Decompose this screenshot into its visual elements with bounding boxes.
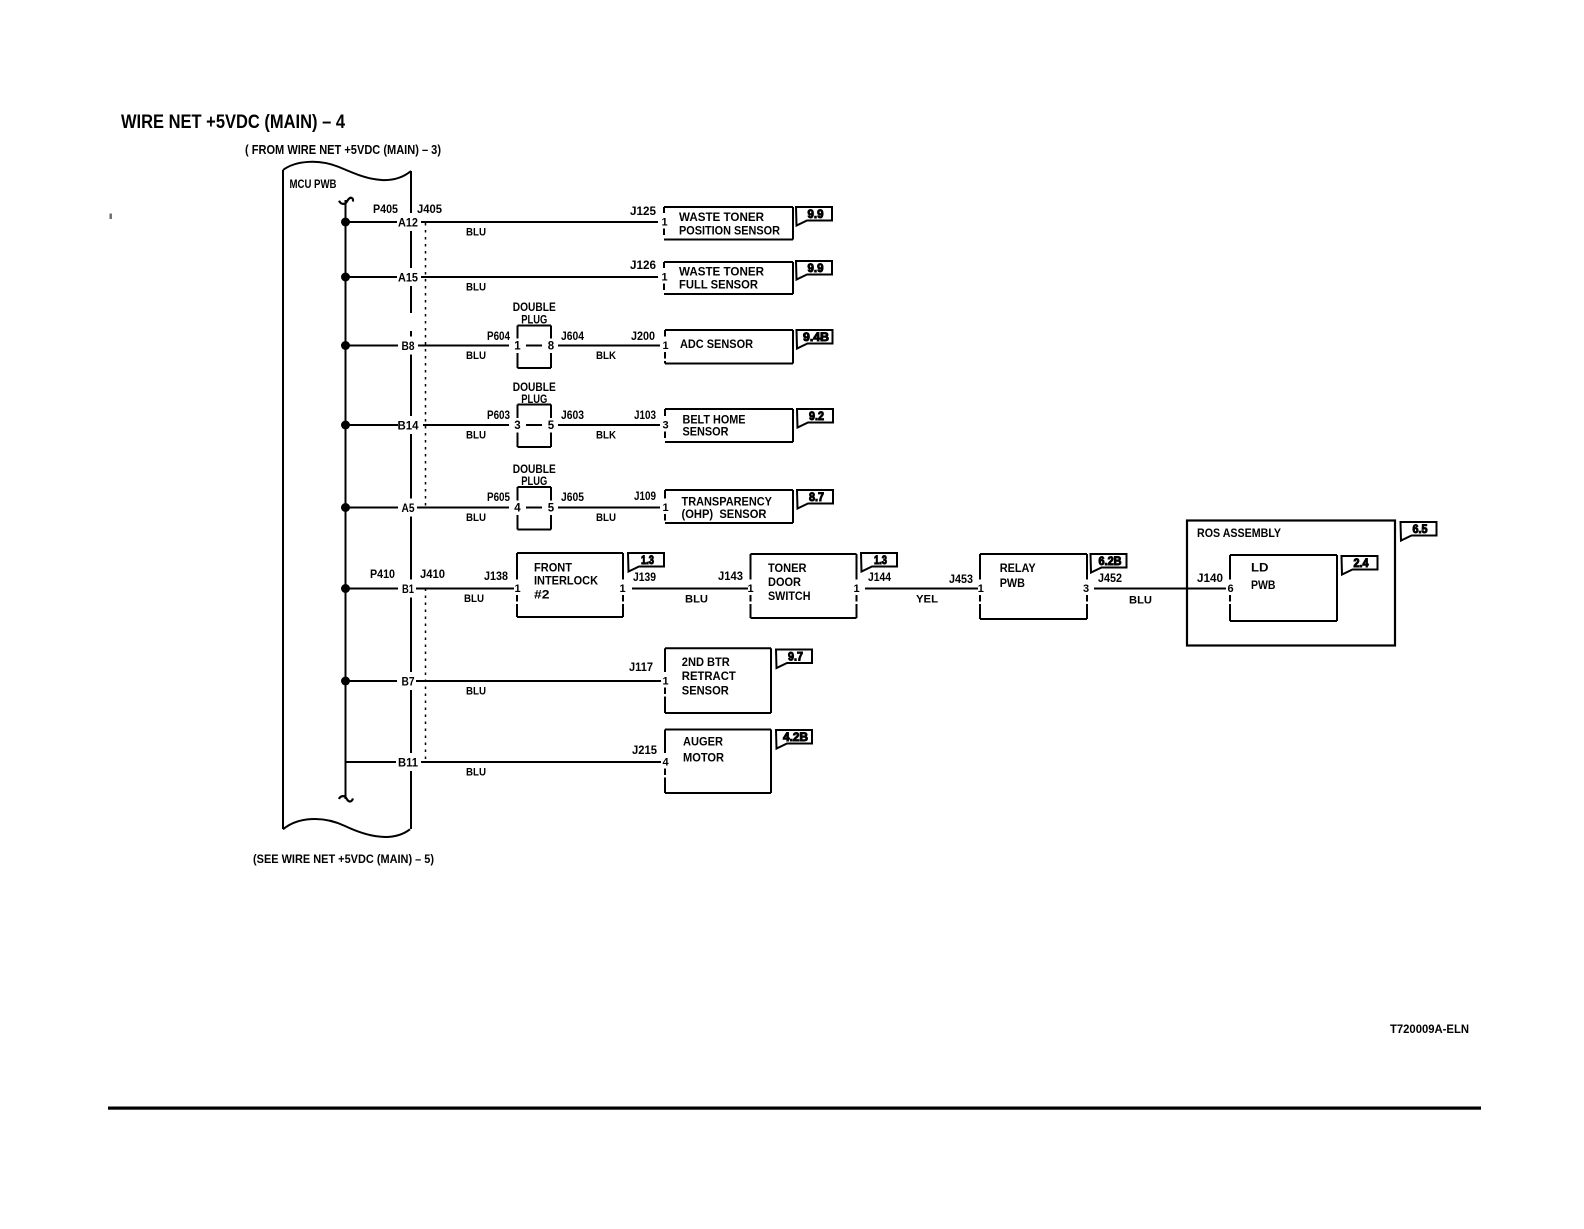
svg-text:PLUG: PLUG (521, 476, 547, 488)
svg-text:P604: P604 (487, 331, 511, 343)
svg-text:BLU: BLU (466, 767, 486, 779)
svg-text:1: 1 (661, 272, 667, 284)
svg-text:MCU PWB: MCU PWB (290, 177, 337, 191)
svg-text:B8: B8 (402, 339, 415, 353)
svg-text:BLU: BLU (466, 350, 486, 362)
svg-text:1: 1 (661, 217, 667, 229)
svg-text:LD: LD (1251, 563, 1269, 575)
svg-text:SENSOR: SENSOR (682, 685, 730, 697)
svg-text:1: 1 (619, 583, 625, 595)
svg-text:9.4B: 9.4B (803, 332, 829, 344)
svg-text:BLU: BLU (466, 686, 486, 698)
svg-text:B1: B1 (402, 582, 414, 596)
svg-text:J139: J139 (633, 572, 656, 584)
svg-text:J103: J103 (634, 410, 656, 422)
svg-text:BLU: BLU (466, 282, 486, 294)
svg-text:WASTE TONER: WASTE TONER (679, 267, 765, 279)
svg-text:P405: P405 (373, 204, 399, 216)
svg-text:1: 1 (747, 583, 753, 595)
svg-text:RETRACT: RETRACT (682, 671, 736, 683)
svg-text:9.7: 9.7 (788, 652, 803, 664)
svg-text:DOUBLE: DOUBLE (513, 464, 556, 476)
svg-text:4.2B: 4.2B (783, 732, 808, 744)
svg-text:P605: P605 (487, 492, 511, 504)
svg-text:SWITCH: SWITCH (768, 591, 811, 603)
svg-text:J405: J405 (417, 204, 443, 216)
svg-text:A5: A5 (402, 501, 415, 515)
svg-text:1: 1 (662, 340, 668, 352)
svg-text:2.4: 2.4 (1354, 558, 1370, 570)
svg-text:1: 1 (514, 583, 520, 595)
svg-text:1: 1 (662, 502, 668, 514)
svg-text:6: 6 (1227, 583, 1233, 595)
svg-text:B14: B14 (398, 419, 419, 433)
svg-text:BLU: BLU (464, 593, 484, 605)
svg-text:J144: J144 (868, 572, 892, 584)
svg-text:9.2: 9.2 (809, 411, 824, 423)
svg-text:1: 1 (978, 583, 984, 595)
svg-text:BELT HOME: BELT HOME (683, 415, 746, 427)
svg-text:9.9: 9.9 (808, 209, 824, 221)
svg-text:SENSOR: SENSOR (683, 427, 730, 439)
svg-text:PWB: PWB (1000, 578, 1025, 590)
svg-text:WIRE NET +5VDC (MAIN) – 4: WIRE NET +5VDC (MAIN) – 4 (121, 112, 345, 133)
svg-text:BLU: BLU (685, 594, 708, 606)
svg-text:J138: J138 (484, 571, 509, 583)
svg-text:J126: J126 (630, 260, 656, 272)
svg-text:DOUBLE: DOUBLE (513, 302, 556, 314)
svg-text:5: 5 (548, 420, 555, 432)
svg-text:B7: B7 (402, 675, 415, 689)
svg-text:J453: J453 (949, 574, 973, 586)
svg-text:A15: A15 (398, 271, 418, 285)
svg-text:4: 4 (662, 757, 669, 769)
svg-text:( FROM WIRE NET +5VDC (MAIN) –: ( FROM WIRE NET +5VDC (MAIN) – 3) (245, 143, 441, 157)
svg-text:6.5: 6.5 (1413, 524, 1429, 536)
svg-text:BLU: BLU (466, 430, 486, 442)
svg-text:1.3: 1.3 (874, 555, 887, 567)
svg-text:PWB: PWB (1251, 580, 1276, 592)
svg-text:J125: J125 (630, 206, 657, 218)
svg-text:J604: J604 (561, 331, 585, 343)
svg-text:6.2B: 6.2B (1099, 556, 1122, 568)
svg-text:9.9: 9.9 (808, 263, 824, 275)
svg-text:(OHP) SENSOR: (OHP) SENSOR (682, 509, 768, 521)
svg-text:PLUG: PLUG (521, 394, 547, 406)
svg-text:DOOR: DOOR (768, 577, 802, 589)
svg-text:FRONT: FRONT (534, 562, 572, 574)
svg-text:J605: J605 (561, 492, 585, 504)
svg-text:A12: A12 (398, 216, 418, 230)
svg-text:BLU: BLU (466, 227, 486, 239)
svg-text:(SEE WIRE NET +5VDC (MAIN) – 5: (SEE WIRE NET +5VDC (MAIN) – 5) (253, 852, 434, 866)
svg-text:1.3: 1.3 (641, 555, 654, 567)
svg-text:FULL SENSOR: FULL SENSOR (679, 280, 759, 292)
svg-text:J140: J140 (1197, 573, 1223, 585)
svg-text:J452: J452 (1098, 573, 1122, 585)
svg-text:ADC SENSOR: ADC SENSOR (680, 339, 754, 351)
svg-text:1: 1 (853, 583, 859, 595)
svg-text:#2: #2 (534, 590, 550, 602)
svg-text:MOTOR: MOTOR (683, 753, 725, 765)
svg-text:J117: J117 (629, 662, 653, 674)
svg-text:ROS ASSEMBLY: ROS ASSEMBLY (1197, 528, 1281, 540)
svg-text:3: 3 (514, 420, 520, 432)
svg-text:BLU: BLU (1129, 595, 1152, 607)
svg-text:PLUG: PLUG (521, 315, 547, 327)
svg-text:J603: J603 (561, 410, 584, 422)
svg-text:J109: J109 (634, 491, 656, 503)
svg-text:P603: P603 (487, 410, 510, 422)
svg-text:BLK: BLK (596, 350, 616, 362)
svg-text:4: 4 (514, 503, 521, 515)
svg-text:BLU: BLU (596, 512, 616, 524)
svg-text:1: 1 (514, 341, 521, 353)
svg-text:INTERLOCK: INTERLOCK (534, 576, 599, 588)
svg-text:5: 5 (548, 503, 555, 515)
svg-text:TRANSPARENCY: TRANSPARENCY (682, 497, 773, 509)
svg-text:1: 1 (662, 676, 668, 688)
svg-text:J410: J410 (420, 569, 445, 581)
svg-text:DOUBLE: DOUBLE (513, 382, 556, 394)
svg-text:8: 8 (548, 341, 555, 353)
svg-text:BLK: BLK (596, 430, 616, 442)
svg-text:POSITION SENSOR: POSITION SENSOR (679, 226, 781, 238)
svg-text:2ND BTR: 2ND BTR (682, 657, 731, 669)
svg-text:3: 3 (1083, 583, 1089, 595)
svg-text:J215: J215 (632, 745, 658, 757)
svg-text:AUGER: AUGER (683, 737, 724, 749)
svg-text:P410: P410 (370, 569, 395, 581)
svg-text:8.7: 8.7 (809, 492, 824, 504)
svg-text:B11: B11 (398, 756, 418, 770)
svg-text:TONER: TONER (768, 563, 807, 575)
svg-text:3: 3 (662, 420, 668, 432)
svg-text:BLU: BLU (466, 512, 486, 524)
svg-text:YEL: YEL (916, 594, 938, 606)
svg-text:T720009A-ELN: T720009A-ELN (1390, 1022, 1469, 1036)
svg-text:WASTE TONER: WASTE TONER (679, 212, 765, 224)
svg-text:RELAY: RELAY (1000, 563, 1036, 575)
svg-text:J143: J143 (718, 571, 743, 583)
svg-text:J200: J200 (631, 331, 655, 343)
